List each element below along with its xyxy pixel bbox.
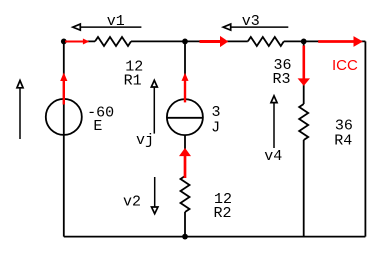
svg-text:v4: v4 bbox=[264, 148, 282, 165]
svg-text:v1: v1 bbox=[107, 13, 125, 30]
svg-text:v2: v2 bbox=[123, 193, 141, 210]
svg-text:R3: R3 bbox=[272, 71, 290, 88]
svg-text:R1: R1 bbox=[124, 72, 142, 89]
svg-text:vj: vj bbox=[136, 132, 154, 149]
svg-text:E: E bbox=[93, 118, 102, 135]
svg-text:3: 3 bbox=[211, 104, 220, 121]
svg-text:R4: R4 bbox=[334, 133, 352, 150]
svg-text:v3: v3 bbox=[242, 13, 260, 30]
svg-text:ICC: ICC bbox=[332, 57, 358, 74]
svg-text:J: J bbox=[211, 120, 220, 137]
svg-text:R2: R2 bbox=[213, 205, 231, 222]
